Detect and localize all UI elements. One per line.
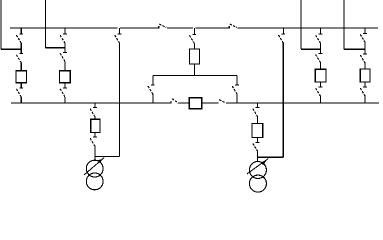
bus W2 stub from tie breaker: [202, 102, 219, 104]
disconnector QS43 (bridge right leg): [232, 75, 239, 103]
bus W1 segment 4: [195, 27, 229, 29]
disconnector QS82 (lower tie right, horizontal): [219, 100, 225, 103]
circuit breaker QF5 (bus tie): [189, 49, 199, 64]
disconnector QS63 (feeder 4 lower): [360, 82, 367, 103]
disconnector QS53 (feeder 3 lower): [316, 82, 323, 103]
circuit breaker QF4: [360, 69, 370, 82]
incoming line L1: [1, 0, 21, 49]
disconnector QS12 (feeder 1 line side): [16, 49, 23, 70]
disconnector QS23 (feeder 2 lower): [60, 83, 67, 103]
bus W2 (lower busbar) left section: [11, 102, 171, 104]
circuit breaker QF6 (lower bus tie): [189, 98, 201, 109]
disconnector QS5 (bus sectionalizer, horizontal): [159, 24, 167, 29]
bus W1 segment 5: [238, 27, 379, 29]
wire tie breaker to bridge: [193, 64, 195, 75]
disconnector QS61 (feeder 4 bus side): [360, 28, 367, 49]
circuit breaker QF1: [16, 71, 27, 83]
bus W2 right section: [226, 102, 379, 104]
incoming line L4: [344, 0, 365, 49]
disconnector QS41 (bus tie upper): [190, 28, 197, 49]
disconnector QS52 (feeder 3 line side): [316, 49, 323, 69]
disconnector QS22 (feeder 2 line side): [60, 48, 67, 71]
incoming line L3: [301, 0, 321, 49]
circuit breaker QF8 (T2): [252, 123, 263, 137]
disconnector QS15 (T1 transformer side): [90, 133, 97, 161]
transformer T2: [247, 159, 268, 193]
disconnector QS31 (transformer T1 bypass): [95, 28, 122, 157]
disconnector QS11 (feeder 1 bus side): [16, 28, 23, 49]
circuit breaker QF3: [315, 69, 326, 82]
disconnector QS6 (bus sectionalizer, horizontal): [229, 24, 237, 29]
disconnector QS21 (feeder 2 bus side): [60, 28, 67, 48]
bus W1 (upper busbar) segment 1: [10, 27, 118, 29]
disconnector QS62 (feeder 4 line side): [360, 49, 367, 69]
disconnector QS73 (T2 transformer side): [253, 137, 260, 161]
circuit breaker QF7 (T1): [91, 119, 100, 132]
circuit breaker QF2: [60, 71, 71, 83]
bus W2 stub to tie breaker: [178, 102, 189, 104]
bus W1 segment 2: [120, 27, 159, 29]
disconnector QS42 (bridge left leg): [148, 75, 155, 103]
incoming line L2: [46, 0, 65, 48]
bus W1 segment 3: [167, 27, 193, 29]
jaw contact of QS81: [170, 101, 172, 104]
transformer T1: [84, 158, 104, 190]
disconnector QS72 (T2 high side): [253, 103, 260, 123]
bridge bus (tie jumper): [153, 74, 237, 76]
disconnector QS13 (feeder 1 lower): [16, 83, 23, 103]
disconnector QS71 (transformer T2 bypass): [258, 28, 286, 157]
disconnector QS51 (feeder 3 bus side): [316, 28, 323, 49]
disconnector QS81 (lower tie left, horizontal): [172, 99, 178, 103]
disconnector QS14 (T1 high side): [90, 103, 97, 119]
